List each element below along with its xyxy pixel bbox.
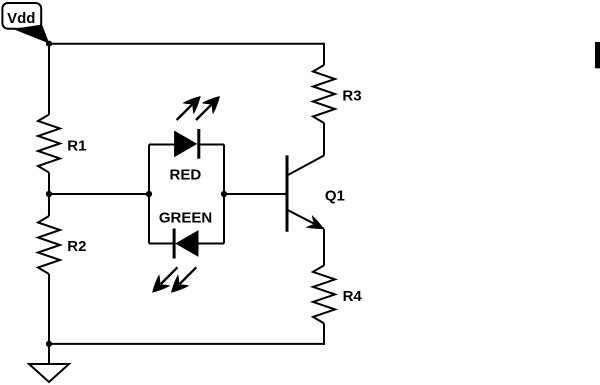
wire R3 top lead (323, 43, 325, 65)
wire R2 to ground node (48, 274, 50, 364)
light emission arrow RED 2 head (202, 96, 220, 114)
light emission arrow GREEN 2 shaft (180, 267, 197, 284)
svg-text:Vdd: Vdd (7, 10, 35, 27)
wire LED block right vertical (223, 145, 225, 244)
svg-text:R4: R4 (343, 288, 363, 305)
wire GREEN branch left (149, 243, 175, 245)
light emission arrow GREEN 1 shaft (161, 267, 178, 284)
wire LED block to transistor base (224, 193, 287, 195)
junction dot node A (46, 191, 52, 197)
light emission arrow RED 2 shaft (196, 103, 213, 120)
svg-text:R3: R3 (342, 87, 361, 104)
ground (29, 364, 69, 382)
wire node A to LED block (49, 193, 149, 195)
junction dot Vdd node (46, 41, 52, 47)
transistor Q1 collector lead (288, 156, 324, 175)
partial component at right edge (595, 42, 600, 68)
light emission arrow GREEN 1 head (152, 274, 170, 292)
wire R3 to collector (323, 123, 325, 156)
resistor R3 (313, 65, 335, 123)
power flag Vdd (2, 3, 49, 44)
diode D1 RED cathode bar (197, 129, 200, 159)
transistor Q1 emitter lead (288, 210, 324, 229)
resistor R2 (38, 216, 60, 274)
transistor Q1 emitter arrow (306, 215, 324, 229)
svg-text:Q1: Q1 (325, 188, 345, 205)
svg-text:GREEN: GREEN (159, 209, 212, 226)
wire LED block left vertical (148, 145, 150, 244)
light emission arrow RED 1 shaft (177, 103, 194, 120)
light emission arrow GREEN 2 head (171, 274, 189, 292)
junction dot ground node (46, 341, 52, 347)
svg-text:RED: RED (170, 166, 202, 183)
wire GREEN branch right (199, 243, 225, 245)
light emission arrow RED 1 head (182, 96, 200, 114)
junction dot LED right node (221, 191, 227, 197)
wire RED branch right (199, 144, 224, 146)
svg-text:R1: R1 (67, 138, 86, 155)
diode D2 GREEN anode triangle (175, 230, 198, 257)
wire top rail (Vdd node to R3 top) (49, 43, 324, 45)
resistor R4 (313, 265, 335, 323)
wire R4 to bottom rail (323, 323, 325, 345)
wire RED branch left (149, 144, 175, 146)
diode D1 RED anode triangle (174, 131, 197, 158)
junction dot LED left node (146, 191, 152, 197)
diode D2 GREEN cathode bar (173, 229, 176, 259)
wire R1 to node A (48, 173, 50, 217)
wire left rail Vdd to R1 (48, 43, 50, 115)
resistor R1 (38, 115, 60, 173)
transistor Q1 base bar (286, 155, 289, 231)
wire bottom rail (49, 343, 324, 345)
wire emitter to R4 (323, 229, 325, 265)
svg-text:R2: R2 (67, 238, 86, 255)
